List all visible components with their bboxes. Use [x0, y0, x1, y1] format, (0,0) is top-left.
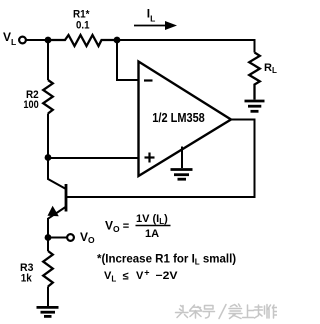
ground (RL)	[245, 101, 265, 111]
wire node D to VO terminal	[48, 237, 67, 239]
wire op-amp V- pin	[181, 147, 183, 169]
node C	[45, 154, 52, 161]
svg-text:100: 100	[23, 99, 38, 111]
ground (R3)	[37, 307, 59, 316]
wire R3 to ground	[47, 287, 49, 307]
resistor R3	[43, 251, 53, 287]
svg-text:*(Increase R1 for IL small): *(Increase R1 for IL small)	[97, 254, 236, 267]
watermark	[176, 304, 278, 319]
svg-text:RL: RL	[264, 62, 277, 75]
wire node D to R3	[47, 238, 49, 252]
node D	[45, 234, 52, 241]
ground (op-amp)	[171, 170, 193, 180]
wire VL to node A	[26, 39, 48, 41]
svg-text:1k: 1k	[21, 273, 33, 285]
wire collector of Q1	[48, 158, 66, 189]
svg-text:VO: VO	[80, 230, 95, 245]
node B	[114, 37, 121, 44]
fraction bar	[136, 225, 171, 227]
terminal VL	[19, 37, 26, 44]
minus input symbol	[144, 79, 153, 81]
svg-text:VL: VL	[104, 270, 116, 284]
formula VO = 1V(IL)/1A	[105, 213, 168, 240]
svg-text:IL: IL	[147, 7, 156, 24]
wire top rail	[117, 40, 255, 53]
node A	[45, 37, 52, 44]
current arrow IL	[134, 21, 177, 30]
wire node B to inverting input	[117, 40, 139, 80]
emitter of Q1	[48, 206, 66, 219]
transistor Q1	[65, 184, 68, 212]
svg-text:≤: ≤	[123, 271, 129, 283]
plus input symbol	[145, 153, 155, 163]
wire R2 to node C	[47, 114, 49, 158]
terminal VO	[67, 234, 74, 241]
resistor R2	[43, 80, 53, 114]
svg-text:1A: 1A	[145, 228, 159, 240]
svg-text:V: V	[136, 270, 144, 282]
svg-text:1V (IL): 1V (IL)	[136, 213, 168, 226]
svg-text:1/2 LM358: 1/2 LM358	[152, 110, 205, 125]
resistor R1	[48, 35, 117, 46]
wire op-amp output to base of Q1	[66, 120, 255, 198]
footnote line 2	[104, 268, 178, 284]
wire node C to non-inverting input	[48, 157, 139, 159]
svg-text:−2V: −2V	[156, 270, 179, 282]
wire emitter to node D	[47, 218, 49, 238]
svg-text:VL: VL	[3, 30, 16, 47]
op-amp U1	[139, 62, 232, 177]
wire node A to R2	[47, 40, 49, 80]
svg-text:+: +	[144, 268, 149, 278]
resistor RL	[249, 53, 260, 100]
svg-text:0.1: 0.1	[76, 20, 90, 32]
svg-text:VO =: VO =	[105, 219, 129, 235]
